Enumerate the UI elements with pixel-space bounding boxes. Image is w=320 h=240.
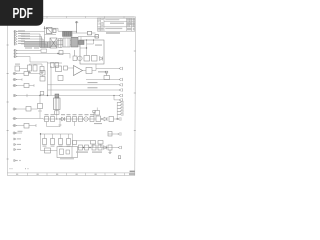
connector J1 pins [14,30,17,45]
resistor R6 [64,66,74,70]
power flag F1 [93,111,95,117]
resistor R27 feedback [58,76,63,81]
wire row2 rail [41,133,73,151]
resistor R7 [86,68,92,74]
resistor R1 [88,31,92,35]
capacitor C19 upper [91,141,96,148]
sheet note text line2 [129,173,135,175]
IC U8 inner [60,147,73,158]
wire top horizontal 1 [45,28,78,31]
label X1 [15,64,20,65]
capacitor C3 [33,65,37,71]
resistor R8 [26,107,31,112]
capacitor C6 [55,63,59,68]
capacitor C5 [51,63,55,68]
wire Q1 base drop [69,54,71,59]
svg-text:PDF: PDF [12,5,33,22]
node N1 [44,28,45,29]
resistor R9 [24,124,29,129]
node N9 [117,118,118,119]
frame zone ticks top [47,16,124,18]
resistor R18 [45,148,51,153]
node N12 [113,95,114,96]
resistor R4 [73,56,77,61]
connector J3 pins [14,108,17,162]
wires J1 to bus [14,32,47,45]
connector P6 [119,98,122,101]
wires U5 to U6 [57,40,80,46]
connector J1 net labels [18,30,30,44]
transformer T1 [54,94,61,110]
wire J2 pin2 [14,53,71,55]
wire J2 pin1 [14,50,42,52]
module U6 boundary [80,40,104,64]
frame border [7,16,135,175]
resistor R2 [84,56,90,62]
wire chain right [101,118,105,120]
capacitor C18 [59,39,63,48]
node N10 [40,133,41,134]
frame zone ticks bottom [28,173,125,176]
capacitor C10 [51,139,55,145]
transistor Q1 [75,50,83,61]
wire K1 [13,73,40,75]
wire OUT6 stub [114,96,119,100]
wire chain drops [47,119,75,127]
resistor R17 [109,117,114,122]
connector K4 pin [14,94,17,97]
wire J3 pin1 [13,108,26,110]
title block [98,18,135,31]
resistor R11 [51,117,55,122]
resistor R25 [24,84,29,88]
IC U2 oscillator [63,32,73,37]
wire R8 right [31,108,38,110]
resistor R5 [56,66,62,72]
connector J2 pins [14,49,17,58]
frame zone ticks right [134,51,136,131]
connector P7 [118,117,121,120]
resistor R22 [98,145,102,150]
crystal X1 [15,66,20,71]
wire J3 pin3 [13,125,24,127]
bus riser wires [40,34,50,48]
address bus highlight [24,41,58,47]
label U6 [95,45,102,46]
node N5 [39,95,40,96]
connector K2 pin [14,78,17,81]
connector K3 pin [14,84,17,87]
capacitor C1 [95,35,99,38]
module U8 box [57,147,78,158]
resistor R14 [79,117,83,122]
capacitor C16 corner [118,156,120,159]
connector K1 pin [14,72,17,75]
wire upper reset [78,36,98,38]
frame zone numbers bottom [16,174,116,175]
connector P2 [119,78,122,81]
label mark left margin [10,168,29,169]
wire net OUT1 [96,64,119,71]
node N11 [83,147,91,148]
wire K2 [13,78,22,80]
label under U8 [60,158,74,159]
mark dots bottom left [16,160,20,161]
capacitor C8 [38,104,43,109]
capacitor C21 upper left [73,141,91,145]
op-amp U3 [74,66,83,76]
connector P1 [119,67,122,70]
node N8 [101,118,102,119]
resistor R26 aux [95,108,100,116]
wire net OUT5 rail [14,95,119,97]
wire R9 right [29,124,36,127]
resistor R24 [24,72,29,76]
connector P9 [118,132,121,135]
title block text smudges [98,18,135,30]
capacitor C20 upper [98,141,103,148]
transistor Q2 [84,117,88,121]
resistor R15 [90,117,94,122]
module U7 left rail [48,62,63,96]
wire row3 [41,150,58,152]
IC U5 shaded [71,37,78,47]
capacitor C12 [67,139,71,145]
wire U3 output [83,70,87,72]
chain rail wire [40,118,96,121]
capacitor C13 [108,132,112,137]
wire aux mid [108,133,118,135]
wire J4 riser [116,102,118,119]
resistor R10 [45,117,49,122]
title block revision cell hatch [98,18,101,24]
wire K3 [13,84,34,87]
capacitor C14 stacked pair [40,71,45,82]
capacitor C11 [59,139,63,145]
wire U6 internal vertical 2 [93,40,95,44]
wire U6 internal horizontal [80,44,94,48]
connector P4 [119,88,122,91]
IC U4 [63,38,70,47]
wire C2 C3 top [20,64,43,69]
frame zone ticks left [7,45,9,159]
capacitor C7 flag [104,71,110,79]
diode D2 [62,117,65,121]
ground G2 [41,71,44,74]
wire to P7 [114,118,118,120]
resistor R23 [108,145,112,150]
resistor R20 [85,145,89,150]
wire R7 right [92,70,96,72]
PDF badge [0,0,43,26]
capacitor C2 [28,65,32,71]
connector P8 [118,146,121,149]
label OUT3 [88,82,98,83]
wire VCC rail vertical [44,26,46,37]
IC U6 input block [79,37,85,45]
node N6 [56,95,57,96]
wire net OUT3 [48,84,119,86]
wire U2 output [72,32,88,34]
ground G1 [28,71,31,73]
wire net OUT2 [86,79,119,81]
label J3 rows [17,138,21,150]
capacitor C4 [40,67,44,72]
resistor R13 [73,117,77,122]
wire J3 pin2 [13,118,58,119]
wire row4 [78,147,119,149]
chain labels [45,114,95,115]
label pin4 [18,131,23,132]
connector P3 [119,83,122,86]
ground G3 [59,125,62,126]
label chain bottom [94,123,102,124]
node N3 [57,53,58,54]
crystal Y1 [47,28,57,34]
capacitor C15 on rail [27,92,44,98]
title block subtitle text below [106,32,120,34]
wire J2 pin3 [14,57,48,63]
ground G4 [109,150,112,154]
connector P5 [119,94,122,97]
node N2 [86,39,94,48]
capacitor C9 [43,139,47,145]
resistor R12 [67,117,71,122]
diode D4 [104,146,107,150]
node N7 [59,118,60,119]
resistor R21 [92,145,96,150]
wire top horizontal 2 [45,34,57,36]
resistor R3 [92,56,98,62]
label box NET1 [41,49,47,53]
wire J3 pin4 [13,132,22,134]
resistor R16 [96,116,101,122]
diode D1 [100,57,103,61]
wire T1 bottom [56,110,58,120]
node N4 [47,95,48,96]
power flag VCC [75,22,78,34]
connector J4 column [117,101,123,116]
label OUT4 [88,87,98,88]
wire C8 branch [38,96,42,119]
wire row2 drops [45,134,73,147]
labels row2 [43,146,71,147]
IC U1 with cross [50,38,57,48]
sheet note text [130,171,135,173]
label OUT1 [98,71,106,72]
wire R1 to U4 [92,32,96,34]
wire U6 internal vertical 1 [86,40,88,56]
label row4 [76,152,102,153]
diode D3 [104,117,107,121]
resistor R19 [79,145,83,150]
bus net labels under highlight [25,48,39,49]
capacitor C17 small [59,51,63,55]
wire net OUT4 [48,89,119,91]
capacitor C22 below T1 [55,111,59,115]
